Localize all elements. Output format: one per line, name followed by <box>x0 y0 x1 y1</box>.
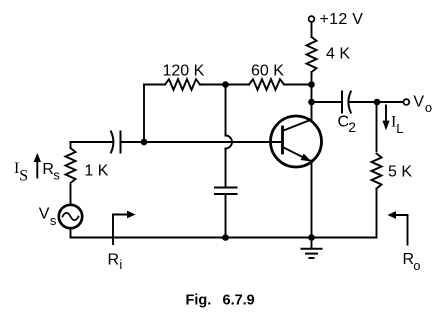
wire collector column <box>311 85 313 120</box>
wire top rail middle segment <box>200 84 249 86</box>
svg-text:s: s <box>50 213 57 228</box>
resistor 4 K <box>307 37 317 72</box>
node dot E output <box>374 99 381 106</box>
transistor emitter stroke <box>284 148 312 162</box>
wire bypass cap to bottom rail <box>225 194 227 238</box>
transistor base bar <box>281 127 284 153</box>
svg-text:5 K: 5 K <box>388 164 412 181</box>
wire emitter vertical <box>311 161 313 238</box>
svg-text:V: V <box>39 206 50 223</box>
wire base wire <box>121 141 282 143</box>
resistor Rs 1 K <box>66 148 76 183</box>
wire top rail left segment <box>144 84 165 86</box>
ground bar 2 <box>306 253 317 255</box>
wire C2 to output terminal <box>350 101 403 103</box>
node dot A base junction <box>141 139 148 146</box>
transistor emitter arrowhead <box>301 154 312 162</box>
capacitor bypass plates <box>215 188 237 195</box>
svg-text:i: i <box>119 257 122 272</box>
svg-text:S: S <box>19 167 28 184</box>
terminal Vo <box>403 99 409 105</box>
wire bottom rail <box>71 237 377 239</box>
arrowhead IS <box>34 153 41 162</box>
resistor 120 K <box>165 79 200 90</box>
node dot G bypass bottom <box>222 234 229 241</box>
svg-text:120 K: 120 K <box>163 63 205 80</box>
source Vs sine wave <box>63 213 79 221</box>
wire Vs bottom lead <box>70 228 72 237</box>
node dot C top rail right <box>308 81 315 88</box>
node dot F emitter ground <box>308 234 315 241</box>
wire crossover hop <box>226 136 233 149</box>
node dot D collector <box>308 99 315 106</box>
wire 5K branch top lead <box>376 102 378 151</box>
wire top rail right segment <box>285 84 312 86</box>
wire middle vertical upper <box>225 85 227 136</box>
svg-text:L: L <box>396 121 403 136</box>
svg-text:o: o <box>413 258 420 273</box>
wire 5K branch bottom lead <box>376 189 378 238</box>
wire Rs to Vs source <box>70 185 72 205</box>
ground stem <box>311 238 313 248</box>
svg-text:V: V <box>413 94 424 111</box>
arrowhead IL <box>382 121 389 131</box>
arrow Ri line <box>113 215 128 245</box>
svg-text:o: o <box>425 100 432 115</box>
wire left vertical from top rail to base wire <box>143 85 145 143</box>
transistor Q1 circle <box>271 116 322 167</box>
node dot B top rail middle <box>222 81 229 88</box>
arrow IL line <box>385 106 387 122</box>
svg-text:s: s <box>53 167 60 182</box>
svg-text:2: 2 <box>348 119 356 135</box>
arrow IS line <box>36 160 38 178</box>
resistor 5 K <box>372 154 382 189</box>
terminal +12V <box>309 16 315 22</box>
source Vs circle <box>59 205 82 228</box>
wire Rs branch top lead <box>70 142 72 148</box>
ground bar 3 <box>310 257 314 259</box>
wire middle vertical lower <box>225 149 227 188</box>
svg-text:Fig.: Fig. <box>186 293 212 309</box>
wire +12V terminal lead <box>311 22 313 37</box>
svg-text:60 K: 60 K <box>251 63 284 80</box>
arrow Ro line <box>395 215 408 245</box>
svg-text:6.7.9: 6.7.9 <box>223 293 255 309</box>
wire 4K bottom lead <box>311 72 313 85</box>
wire C2 branch left <box>312 101 343 103</box>
svg-text:4 K: 4 K <box>326 46 350 63</box>
svg-text:R: R <box>108 252 120 269</box>
svg-text:1 K: 1 K <box>84 163 108 180</box>
capacitor C2 <box>342 92 351 113</box>
arrowhead Ro <box>388 211 397 219</box>
wire from Rs branch to input capacitor <box>71 141 113 143</box>
svg-text:+12 V: +12 V <box>320 11 364 28</box>
capacitor C1 input coupling <box>111 132 121 153</box>
resistor 60 K <box>249 79 284 90</box>
transistor collector stroke <box>284 120 312 131</box>
ground bar 1 <box>302 248 322 250</box>
arrowhead Ri <box>127 211 136 219</box>
svg-text:R: R <box>42 161 54 178</box>
